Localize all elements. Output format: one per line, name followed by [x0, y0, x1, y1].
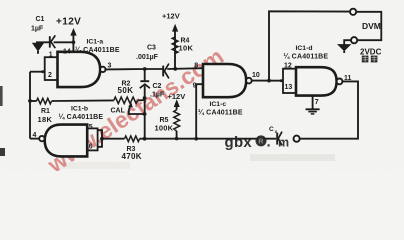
svg-text:10: 10 [252, 72, 260, 79]
svg-text:m: m [278, 135, 289, 149]
wire pin 10 to IC1-d inputs [252, 80, 283, 82]
scan smudge bottom center [250, 154, 335, 161]
svg-text:18K: 18K [38, 115, 53, 124]
wire IC1-a pin3 output to C3 [106, 68, 163, 70]
svg-text:C2: C2 [153, 83, 162, 90]
label 2VDC range (CJK glyph blobs) [362, 56, 378, 63]
node R4 bottom junction [173, 67, 177, 71]
svg-text:9: 9 [193, 83, 197, 90]
+12V supply arrow (IC1 pin14) [71, 29, 76, 42]
resistor R4 [172, 37, 178, 69]
wire pin 11 loop to Cx terminal [300, 81, 358, 138]
terminal Cx [294, 136, 300, 142]
resistor R1 [30, 98, 52, 104]
node DVM riser junction [267, 79, 271, 83]
bubble IC1-d output pin11 [337, 79, 343, 85]
svg-text:¼ CA4011BE: ¼ CA4011BE [284, 53, 329, 61]
bubble IC1-b output pin4 [39, 136, 44, 141]
svg-text:11: 11 [344, 75, 352, 82]
svg-text:gbx: gbx [225, 134, 253, 151]
svg-text:IC1-d: IC1-d [296, 45, 313, 52]
svg-text:50K: 50K [118, 86, 134, 95]
node R5 bottom junction [175, 137, 179, 141]
svg-text:C1: C1 [36, 16, 45, 23]
+12V supply arrow (R4 top) [173, 25, 178, 37]
scan smudge bottom left [60, 162, 130, 169]
IC1-d input box [283, 69, 296, 93]
bubble IC1-a output [100, 67, 105, 72]
svg-text:14: 14 [63, 49, 71, 56]
bubble IC1-c output [246, 78, 252, 84]
wire DVM bottom to ground [344, 40, 351, 44]
svg-text:+12V: +12V [168, 92, 186, 101]
svg-text:5: 5 [89, 124, 93, 131]
wire C3 to IC1-c pin 8 [167, 67, 203, 70]
watermark gbx (dark) [225, 134, 290, 152]
svg-text:100K: 100K [155, 124, 174, 133]
capacitor C2 [140, 81, 150, 88]
resistor R3 [125, 136, 140, 142]
svg-text:C3: C3 [147, 45, 156, 52]
gate IC1-b (mirrored) [45, 125, 87, 157]
scan artifact left edge marks [0, 86, 3, 106]
svg-text:IC1-b: IC1-b [71, 105, 88, 112]
wire pin 2 input [30, 71, 45, 73]
svg-text:4: 4 [33, 132, 37, 139]
capacitor C1 [50, 35, 56, 48]
svg-text:+12V: +12V [56, 17, 81, 28]
R2 wiper arrow [129, 103, 133, 110]
wire pin 7 [312, 96, 314, 109]
terminal DVM bottom [351, 37, 357, 43]
wire wiper to vertical [129, 110, 145, 114]
wire to R3 [102, 138, 125, 140]
svg-text:8: 8 [194, 62, 198, 69]
wire R3 to bottom rail [140, 138, 277, 140]
node R2/C2 junction [143, 96, 147, 100]
ground (DVM) [338, 45, 350, 53]
wire pin 5 stub [98, 130, 102, 147]
svg-text:1: 1 [49, 52, 53, 59]
gate IC1-a [58, 52, 101, 87]
svg-text:2: 2 [48, 72, 52, 79]
wire pin 4 [30, 138, 39, 140]
node R3/C2 vertical junction [143, 137, 147, 141]
terminal DVM top [350, 9, 356, 15]
DVM box [356, 12, 381, 40]
node IC1-d input entry dot [280, 79, 283, 82]
svg-text:¼ CA4011BE: ¼ CA4011BE [59, 113, 104, 121]
node wiper junction [143, 112, 147, 116]
svg-text:470K: 470K [122, 152, 142, 161]
wire C1 to +12V node [54, 41, 74, 43]
wire R2 right end to vertical [138, 99, 145, 101]
capacitor Cx [277, 132, 282, 146]
svg-text:2VDC: 2VDC [360, 48, 382, 57]
wire left vertical pin2/R1/pin4 [29, 72, 31, 139]
svg-text:7: 7 [315, 99, 319, 106]
svg-text:DVM: DVM [362, 21, 381, 31]
svg-text:.: . [267, 134, 271, 151]
capacitor C3 [163, 64, 169, 79]
svg-text:3: 3 [108, 62, 112, 69]
IC1-b input box [87, 128, 97, 150]
wire pin 14 [72, 42, 74, 52]
svg-text:1µF: 1µF [31, 25, 44, 32]
resistor R2 (pot) [114, 97, 138, 104]
svg-text:.1µF: .1µF [150, 92, 165, 99]
svg-text:¼ CA4011BE: ¼ CA4011BE [75, 46, 120, 54]
op: IC1-a input box [45, 57, 58, 80]
svg-text:¼ CA4011BE: ¼ CA4011BE [198, 108, 243, 116]
+12V supply arrow (R5 top) [174, 100, 179, 109]
ground (C1 left) [33, 42, 43, 54]
wire ground to C1 [38, 41, 49, 43]
ground (IC1 pin7 earth) [306, 109, 320, 114]
svg-text:IC1-a: IC1-a [87, 39, 104, 46]
resistor R5 [174, 110, 180, 139]
gate IC1-d [296, 67, 337, 95]
svg-text:12: 12 [284, 63, 292, 70]
wire R1 to R2 [52, 99, 114, 102]
wire C2 vertical [144, 69, 146, 139]
node IC1-b input junction [100, 137, 104, 141]
wire IC1-c pin 9 [196, 84, 203, 139]
svg-text:C: C [269, 126, 274, 133]
svg-text:CAL: CAL [111, 108, 126, 115]
wire riser to DVM [269, 11, 350, 80]
gate IC1-c [203, 64, 246, 97]
svg-text:x: x [275, 130, 278, 135]
svg-text:10K: 10K [179, 43, 194, 52]
node C2 top junction [143, 67, 147, 71]
svg-text:.001µF: .001µF [136, 54, 159, 61]
node pin2 entry dot [41, 70, 44, 73]
svg-text:6: 6 [89, 143, 93, 150]
node pin9 rail junction [194, 137, 198, 141]
node R1 junction [28, 99, 32, 103]
svg-text:+12V: +12V [162, 12, 180, 21]
svg-text:R: R [258, 138, 263, 145]
node +12V junction [72, 40, 76, 44]
svg-text:IC1-c: IC1-c [210, 101, 227, 108]
svg-text:13: 13 [285, 84, 293, 91]
